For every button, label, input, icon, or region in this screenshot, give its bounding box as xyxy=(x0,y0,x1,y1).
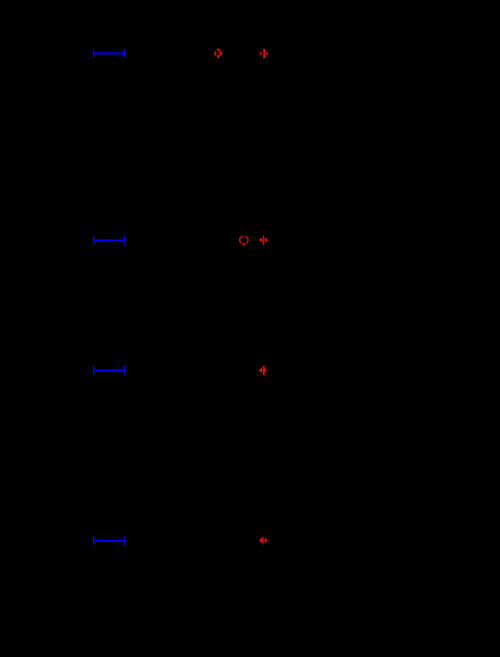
row 2 red diamond split by reference line xyxy=(259,235,268,247)
row 2 hollow red circle marker xyxy=(239,235,249,245)
row 4 blue errorbar glyph xyxy=(93,537,125,546)
row 3 blue errorbar glyph xyxy=(93,366,125,375)
row 1 red errorbar stub with vertical cap at reference line xyxy=(259,48,268,60)
row 2 blue errorbar glyph xyxy=(93,236,125,245)
row 1 hollow red circle marker xyxy=(213,49,223,59)
row 4 red diamond split by reference line xyxy=(259,535,268,546)
row 3 red diamond split by reference line xyxy=(259,365,267,376)
row 1 blue errorbar glyph xyxy=(93,49,125,58)
